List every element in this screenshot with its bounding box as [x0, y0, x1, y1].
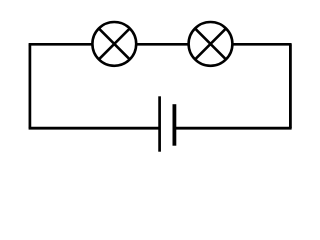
wire	[136, 43, 189, 46]
lamp 1	[92, 22, 136, 66]
lamp 2	[189, 22, 233, 66]
wire	[29, 44, 32, 128]
battery cell	[160, 96, 175, 151]
wire	[29, 127, 160, 130]
wire	[29, 43, 93, 46]
wire	[232, 43, 292, 46]
wire	[289, 44, 292, 128]
wire	[174, 127, 292, 130]
